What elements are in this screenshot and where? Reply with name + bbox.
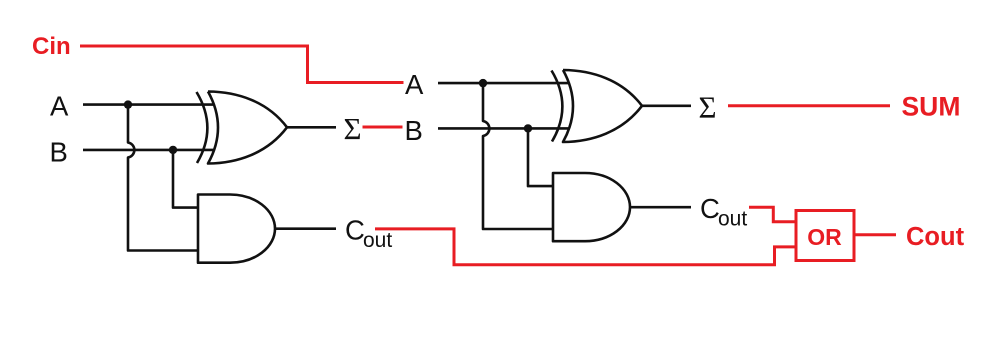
svg-text:SUM: SUM (902, 92, 961, 122)
wire A branch to AND with hop over B (HA1) (128, 105, 198, 251)
svg-text:OR: OR (807, 224, 842, 250)
XOR gate U1 body (208, 92, 287, 164)
XOR gate U3 body (563, 70, 642, 142)
wire SUM output (728, 104, 890, 107)
AND gate U2 (198, 195, 275, 263)
wire XOR output (HA1 sum) (287, 126, 336, 129)
wire B input (HA2) (438, 127, 569, 130)
wire B input (HA1) (83, 149, 214, 152)
wire Sigma1 to HA2 input B (363, 126, 403, 129)
wire A input (HA2) (438, 82, 569, 85)
svg-text:Cin: Cin (32, 33, 71, 60)
XOR gate U3 input curve (552, 71, 563, 142)
svg-text:B: B (405, 115, 423, 146)
wire Cout1 to OR gate lower input (375, 229, 796, 265)
wire B branch to AND (HA1) (173, 150, 198, 208)
node A junction (HA2) (479, 79, 487, 87)
half adder 1 (50, 90, 393, 262)
XOR gate U1 input curve (197, 92, 208, 163)
svg-text:A: A (405, 69, 424, 100)
wire A input (HA1) (83, 103, 214, 106)
half adder 2 (405, 69, 748, 241)
AND gate U4 (553, 173, 630, 241)
svg-text:out: out (363, 229, 392, 252)
node A junction (HA1) (124, 100, 132, 108)
wire Cin to HA2 input A (80, 46, 404, 83)
node B junction (HA2) (524, 124, 532, 132)
svg-text:C: C (345, 215, 365, 246)
wire Cout2 to OR gate upper input (749, 207, 796, 222)
svg-text:Σ: Σ (344, 111, 362, 146)
svg-text:out: out (718, 208, 747, 231)
wire A branch to AND with hop over B (HA2) (483, 83, 553, 229)
svg-text:C: C (700, 193, 720, 224)
svg-text:B: B (50, 136, 68, 167)
node B junction (HA1) (169, 146, 177, 154)
svg-text:A: A (50, 90, 69, 121)
wire B branch to AND (HA2) (528, 128, 553, 186)
wire XOR output (HA2 sum) (642, 105, 691, 108)
wire OR output (854, 233, 896, 236)
svg-text:Σ: Σ (699, 89, 717, 124)
wire AND output (HA2 carry) (630, 206, 691, 209)
wire AND output (HA1 carry) (275, 227, 336, 230)
svg-text:Cout: Cout (906, 223, 965, 251)
OR gate U5 box (796, 211, 854, 261)
